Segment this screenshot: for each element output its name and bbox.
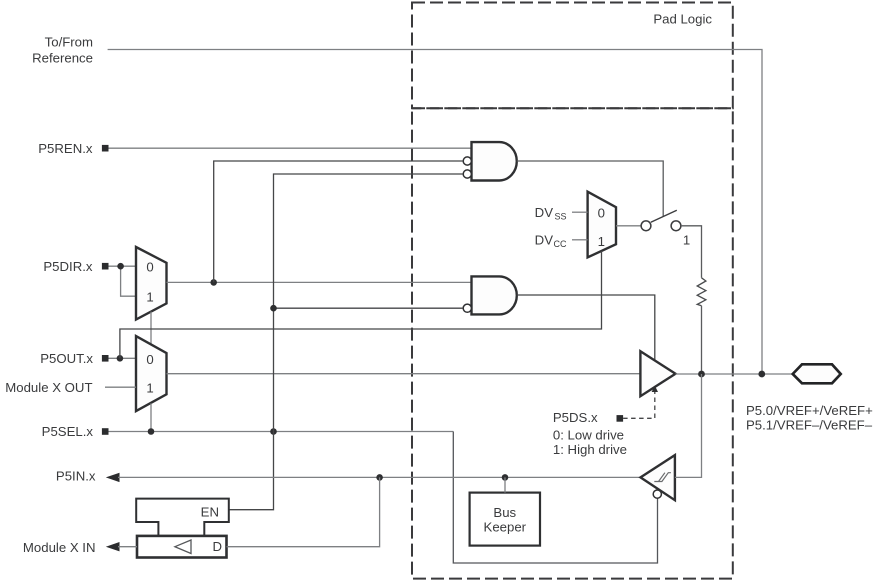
label: Module X IN	[23, 540, 96, 555]
wire: DVcc stub	[572, 239, 588, 241]
bus keeper BK1	[470, 493, 540, 546]
wire: D latch to Module X IN	[118, 546, 137, 548]
wire: U1 output to switch lever	[517, 161, 663, 216]
arrowhead P5IN.x	[106, 473, 120, 482]
junction dot P5SEL at M3 select	[148, 428, 155, 435]
svg-text:0: 0	[146, 352, 153, 367]
inverting enable bubble U4	[653, 490, 661, 498]
arrowhead Module X IN	[106, 542, 120, 551]
wire: mux M2 select link	[150, 312, 152, 345]
junction dot P5OUT branch	[117, 355, 124, 362]
svg-text:P5SEL.x: P5SEL.x	[42, 424, 94, 439]
terminal square P5OUT.x	[102, 355, 109, 362]
svg-text:0: Low drive: 0: Low drive	[553, 428, 624, 443]
label: Pad Logic	[653, 12, 712, 27]
svg-text:0: 0	[598, 206, 605, 221]
wire: P5SEL to input buffer enable	[453, 432, 657, 564]
input Schmitt buffer U4	[641, 455, 675, 500]
switch S1 lever	[651, 210, 677, 222]
EN latch enable block	[136, 499, 229, 536]
svg-text:P5REN.x: P5REN.x	[38, 141, 93, 156]
Pad Logic enclosure top dashed box	[412, 3, 733, 109]
wire: P5DIR.x to mux M2 input 0	[109, 265, 137, 267]
svg-text:Pad Logic: Pad Logic	[653, 12, 712, 27]
label: P5IN.x	[56, 469, 96, 484]
wire: P5SEL vertical to U1/U2 inputs and EN latch	[229, 174, 463, 510]
svg-text:P5OUT.x: P5OUT.x	[40, 351, 93, 366]
svg-text:Module X OUT: Module X OUT	[5, 380, 92, 395]
terminal square P5SEL.x	[102, 428, 109, 435]
wire: U2 output to driver enable	[517, 295, 655, 361]
switch S1 contact circle left	[641, 221, 651, 231]
wire: driver U3 output to pad	[676, 373, 793, 375]
svg-text:D: D	[212, 539, 222, 554]
junction dot P5DIR branch	[117, 263, 124, 270]
junction dot P5SEL at logic branch	[270, 428, 277, 435]
wire: mux M1 output to switch	[616, 225, 641, 227]
resistor R1 (pullup/pulldown)	[697, 278, 706, 306]
junction dot P5SEL at U2 spur	[270, 305, 277, 312]
inverting bubble U1 input 2	[463, 157, 471, 165]
wire: mux M3 select link	[150, 403, 152, 431]
hysteresis symbol in U4	[654, 473, 671, 482]
wire: mux M3 output to driver U3	[167, 373, 641, 375]
terminal square P5DIR.x	[102, 263, 109, 270]
svg-text:SS: SS	[554, 212, 566, 222]
svg-text:Bus: Bus	[493, 505, 516, 520]
mux M1 DVss/DVcc selector	[588, 192, 616, 258]
output driver buffer U3	[640, 351, 675, 396]
wire: To/From Reference to pad node	[108, 50, 762, 375]
label: DVcc	[535, 233, 567, 250]
label: DVss	[535, 205, 567, 222]
wire: P5SEL.x main run	[109, 431, 454, 433]
wire: pad node down to U4 input	[675, 374, 702, 477]
inverting bubble U2 input 2	[463, 304, 471, 312]
Pad Logic enclosure main dashed box	[412, 108, 733, 578]
svg-text:1: 1	[598, 234, 605, 249]
svg-text:DV: DV	[535, 233, 554, 248]
label: P5SEL.x	[42, 424, 94, 439]
svg-text:1: 1	[146, 290, 153, 305]
terminal square P5REN.x	[102, 145, 109, 152]
label: P5.0/VREF+/VeREF+ and P5.1/VREF-/VeREF-	[746, 403, 873, 433]
label: switch position 1	[683, 233, 690, 248]
label: P5REN.x	[38, 141, 93, 156]
svg-text:P5.0/VREF+/VeREF+: P5.0/VREF+/VeREF+	[746, 403, 873, 418]
svg-text:P5.1/VREF–/VeREF–: P5.1/VREF–/VeREF–	[746, 418, 873, 433]
svg-text:P5DS.x: P5DS.x	[553, 410, 598, 425]
wire: P5OUT.x to mux M3 input 0	[109, 357, 137, 359]
inverting bubble U1 input 3	[463, 170, 471, 178]
label: To/From Reference	[32, 34, 93, 65]
AND gate U1 (pullup/pulldown enable, 3 inputs, 2 inverted)	[472, 142, 517, 180]
pad terminal hexagon P5.0/P5.1	[793, 364, 841, 383]
arrowhead drive strength control	[652, 386, 658, 393]
wire: P5OUT to mux M1 select	[120, 251, 602, 358]
clock triangle in D latch	[175, 540, 191, 554]
wire: bus keeper stub	[504, 477, 506, 492]
wire: DVss stub	[572, 211, 588, 213]
svg-text:EN: EN	[201, 504, 219, 519]
wire: direction to U1 input 2	[214, 161, 464, 282]
wire: mux M2 output to AND U2 input	[167, 281, 472, 283]
svg-text:To/From: To/From	[45, 34, 93, 49]
D latch input register	[137, 536, 227, 558]
svg-text:1: High drive: 1: High drive	[553, 442, 627, 457]
junction dot pad-resistor node	[698, 371, 705, 378]
svg-text:1: 1	[146, 380, 153, 395]
label: Module X OUT	[5, 380, 92, 395]
mux M3 output select	[136, 336, 167, 411]
label: P5DS.x and drive modes	[553, 410, 627, 457]
svg-text:DV: DV	[535, 205, 554, 220]
svg-text:Reference: Reference	[32, 50, 93, 65]
svg-text:CC: CC	[554, 239, 567, 249]
junction dot pad-reference node	[758, 371, 765, 378]
wire: P5DIR.x branch to mux M2 input 1	[121, 266, 136, 296]
switch S1 contact circle right	[671, 221, 681, 231]
svg-text:Module X IN: Module X IN	[23, 540, 96, 555]
junction dot P5IN to bus keeper	[502, 474, 509, 481]
mux M2 direction select	[136, 247, 167, 320]
junction dot P5IN to module latch	[376, 474, 383, 481]
svg-text:P5IN.x: P5IN.x	[56, 469, 96, 484]
junction dot direction feedback	[210, 279, 217, 286]
svg-text:1: 1	[683, 233, 690, 248]
svg-text:Keeper: Keeper	[484, 520, 527, 535]
wire: switch to resistor	[681, 226, 702, 278]
dashed wire: P5DS.x to driver strength control	[623, 390, 655, 418]
label: P5DIR.x	[43, 259, 93, 274]
wire: P5IN node to D latch input	[227, 477, 380, 546]
wire: resistor to pad node	[701, 306, 703, 374]
terminal square P5DS.x	[617, 415, 624, 422]
AND gate U2 (output enable, 1 inverted input)	[472, 276, 517, 314]
svg-text:0: 0	[146, 260, 153, 275]
wire: Module X OUT to mux M3 input 1	[105, 386, 136, 388]
wire: input buffer to P5IN.x	[118, 476, 641, 478]
label: P5OUT.x	[40, 351, 93, 366]
wire: P5SEL spur to U2 inverted input	[274, 307, 464, 309]
svg-text:P5DIR.x: P5DIR.x	[43, 259, 93, 274]
wire: P5REN.x to AND gate U1 input	[109, 147, 472, 149]
